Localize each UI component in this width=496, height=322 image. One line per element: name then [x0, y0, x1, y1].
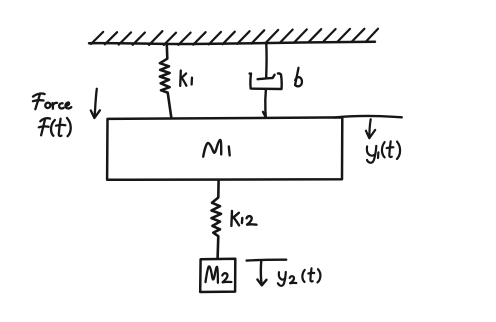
damper B rod (bottom) [263, 89, 266, 117]
damper B piston plate [258, 75, 275, 79]
ceiling line [89, 42, 375, 44]
spring K12 [212, 181, 222, 258]
label k1 [180, 71, 192, 86]
damper B rod (top) [265, 44, 268, 77]
mass M1 rectangle [107, 117, 342, 179]
mass M2 rectangle [200, 259, 235, 292]
label M2 [206, 266, 232, 282]
label y1(t) [367, 141, 400, 163]
force arrow [91, 89, 100, 118]
ceiling hatch marks [91, 29, 378, 45]
label M1 [203, 140, 230, 157]
arrow y1 [366, 119, 375, 138]
label Force [33, 93, 71, 109]
spring K1 [160, 45, 171, 118]
label F(t) [39, 118, 71, 136]
label y2(t) [278, 268, 320, 286]
damper B cylinder cup [250, 73, 282, 89]
label k12 [231, 211, 256, 226]
label b [295, 68, 302, 87]
arrow y2 (T shape) [247, 260, 287, 286]
reference line to the right of M1 [334, 116, 402, 118]
